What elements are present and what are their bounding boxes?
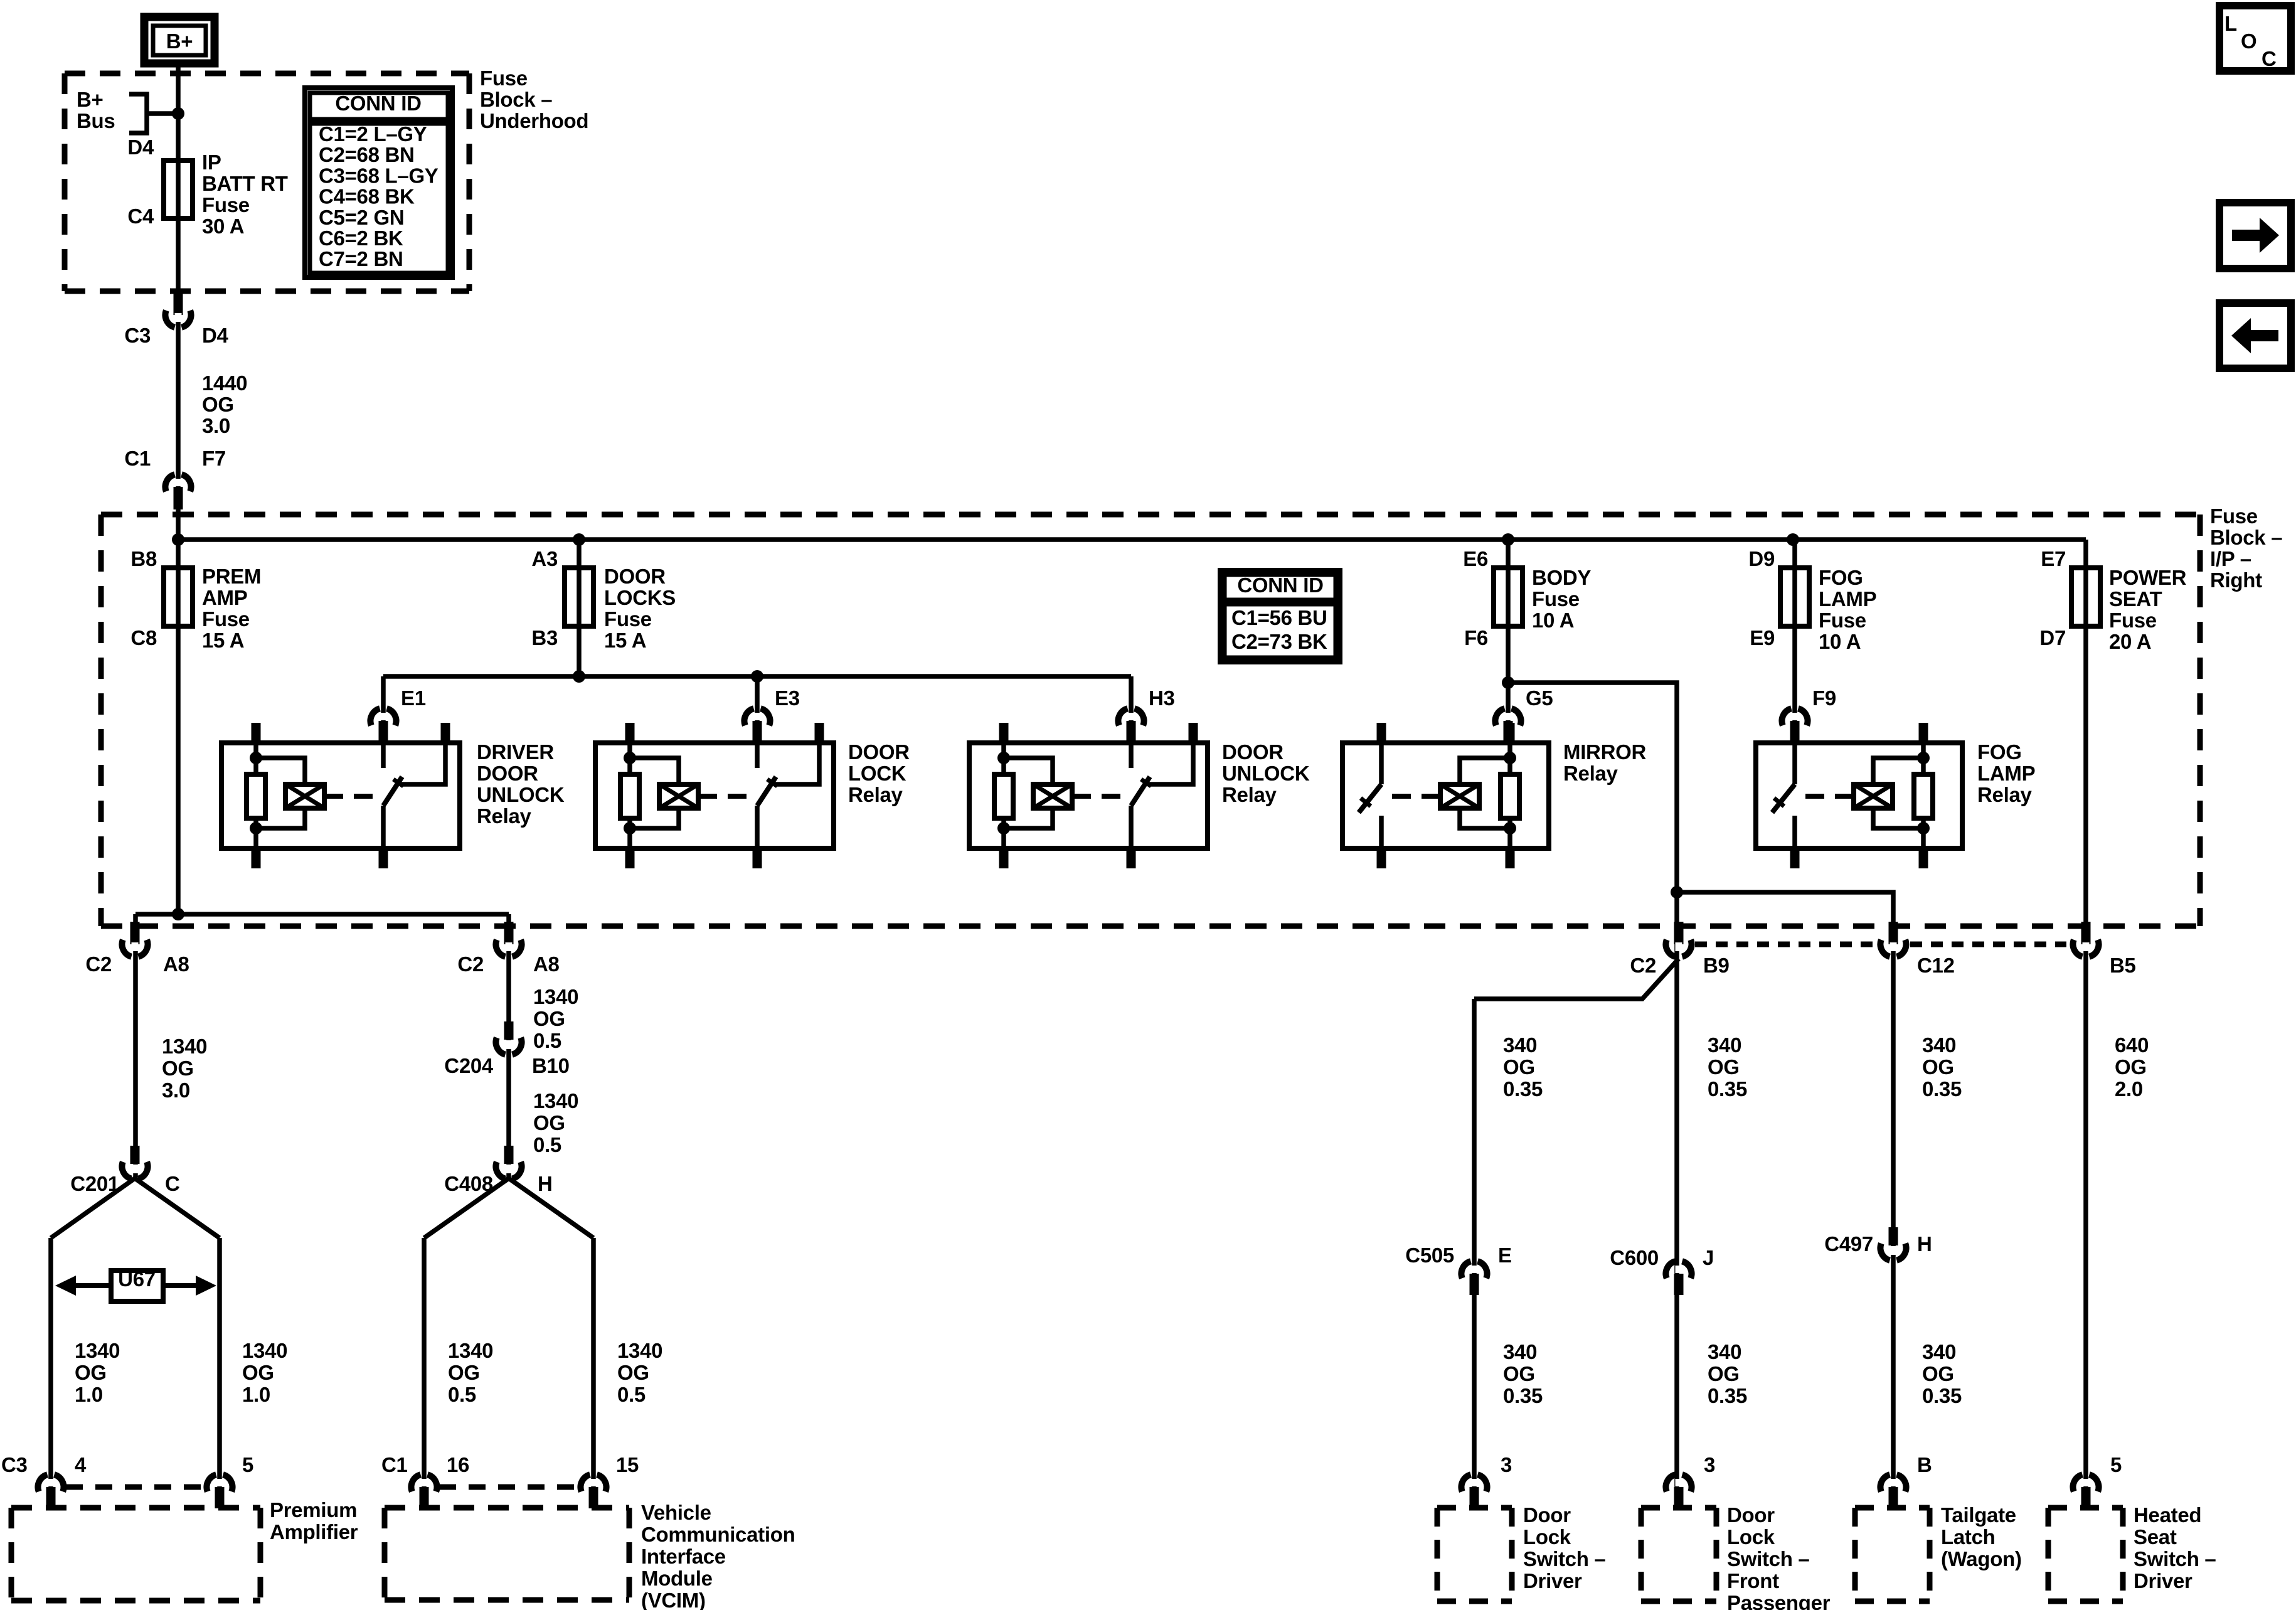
connector pin 3 door lock passenger dome	[1666, 1474, 1675, 1491]
svg-text:Door: Door	[1523, 1503, 1571, 1527]
svg-text:(VCIM): (VCIM)	[641, 1589, 706, 1610]
svg-text:C3: C3	[1, 1453, 28, 1476]
svg-text:C3: C3	[124, 324, 151, 347]
svg-text:0.35: 0.35	[1708, 1384, 1747, 1407]
connector H3 dome	[1118, 708, 1127, 725]
fuse: DOOR LOCKS 15A (A3/B3)	[565, 568, 593, 626]
connector C2/A8 left cup	[132, 942, 139, 951]
relay: DRIVER DOOR UNLOCK	[221, 743, 460, 848]
connector C204 cup	[506, 1040, 513, 1049]
svg-text:Fuse: Fuse	[1532, 587, 1580, 610]
svg-text:Amplifier: Amplifier	[270, 1520, 358, 1543]
svg-text:OG: OG	[617, 1361, 649, 1384]
svg-text:SEAT: SEAT	[2109, 587, 2162, 610]
bus junction dot B8	[172, 533, 184, 546]
svg-text:LAMP: LAMP	[1819, 587, 1876, 610]
connector C2/A8 mid male stub	[504, 922, 514, 944]
svg-text:Fuse: Fuse	[202, 193, 250, 216]
svg-text:C2=68 BN: C2=68 BN	[319, 143, 415, 166]
connector C201 male stub	[130, 1146, 140, 1164]
svg-text:Fuse: Fuse	[2109, 609, 2157, 632]
svg-text:C: C	[165, 1172, 180, 1195]
svg-text:3: 3	[1704, 1453, 1715, 1476]
svg-text:D4: D4	[127, 136, 154, 159]
svg-text:FOG: FOG	[1977, 740, 2022, 764]
svg-text:Fuse: Fuse	[480, 67, 528, 90]
svg-text:F6: F6	[1464, 626, 1488, 649]
connector C505 dome	[1461, 1261, 1470, 1278]
rail junction dot B3	[573, 670, 585, 683]
connector G5 dome	[1495, 708, 1504, 725]
U67 option double arrow left line	[74, 1283, 111, 1288]
svg-text:Seat: Seat	[2134, 1525, 2177, 1549]
wire VCIM right leg	[591, 1238, 596, 1508]
connector C505 male stub	[1470, 1274, 1479, 1295]
svg-text:3.0: 3.0	[202, 414, 230, 437]
svg-text:0.5: 0.5	[533, 1133, 561, 1156]
svg-text:OG: OG	[162, 1057, 194, 1080]
svg-text:UNLOCK: UNLOCK	[1222, 762, 1310, 785]
connector pin 4 premium amp male stub	[46, 1487, 56, 1508]
connector pin 3 door lock driver dome	[1461, 1474, 1470, 1491]
relay: FOG LAMP	[1756, 743, 1962, 848]
CONN ID table - underhood connectors	[305, 88, 452, 277]
svg-text:C12: C12	[1917, 954, 1955, 977]
svg-text:B8: B8	[130, 547, 157, 570]
svg-text:3.0: 3.0	[162, 1079, 190, 1102]
svg-text:LOCKS: LOCKS	[604, 586, 676, 609]
svg-text:Passenger: Passenger	[1727, 1591, 1831, 1610]
connector C497 cup	[1890, 1246, 1897, 1255]
connector pin 4 premium amp dome	[38, 1474, 47, 1491]
bus wire from B8 feed across fuse block to power seat fuse	[178, 537, 2086, 542]
arrow box right	[2219, 203, 2291, 269]
fuse block - underhood dashed outline	[65, 71, 469, 77]
component box: Premium Amplifier	[11, 1505, 260, 1511]
svg-text:Interface: Interface	[641, 1545, 726, 1568]
svg-text:OG: OG	[1503, 1055, 1535, 1079]
svg-text:Switch –: Switch –	[2134, 1547, 2216, 1570]
svg-text:1340: 1340	[533, 985, 578, 1008]
wire B9 diagonal to door lock switch driver	[1474, 959, 1679, 999]
svg-text:LOCK: LOCK	[848, 762, 906, 785]
svg-text:340: 340	[1503, 1033, 1537, 1057]
svg-text:C505: C505	[1405, 1244, 1454, 1267]
connector C600 dome	[1666, 1261, 1675, 1278]
svg-text:Switch –: Switch –	[1727, 1547, 1809, 1570]
connector C12 male stub	[1889, 922, 1898, 944]
svg-text:C5=2 GN: C5=2 GN	[319, 206, 404, 229]
svg-text:F7: F7	[202, 447, 226, 470]
svg-text:0.35: 0.35	[1922, 1384, 1962, 1407]
svg-text:DOOR: DOOR	[477, 762, 538, 785]
U67 box	[111, 1271, 163, 1301]
svg-text:1340: 1340	[242, 1339, 287, 1362]
connector C497 male stub	[1889, 1227, 1898, 1245]
connector face dotted line C2 right	[1695, 942, 1877, 947]
junction dot B9 tap	[1671, 886, 1683, 898]
relay: DOOR UNLOCK	[969, 743, 1208, 848]
svg-text:340: 340	[1922, 1340, 1956, 1363]
relay: DOOR LOCK	[595, 743, 834, 848]
svg-text:DOOR: DOOR	[1222, 740, 1284, 764]
svg-text:MIRROR: MIRROR	[1563, 740, 1646, 764]
fuse: BODY 10A (E6/F6)	[1494, 568, 1523, 626]
connector pin 3 door lock driver male stub	[1470, 1487, 1479, 1508]
svg-text:Premium: Premium	[270, 1498, 357, 1522]
svg-text:C2=73 BK: C2=73 BK	[1231, 630, 1327, 653]
bus junction dot D9	[1787, 533, 1799, 546]
svg-text:340: 340	[1922, 1033, 1956, 1057]
svg-text:LAMP: LAMP	[1977, 762, 2035, 785]
svg-text:E: E	[1498, 1244, 1512, 1267]
svg-text:H: H	[1917, 1232, 1932, 1255]
svg-text:15 A: 15 A	[202, 629, 244, 652]
svg-text:G5: G5	[1526, 686, 1553, 710]
component box: Door Lock Switch Front Passenger	[1641, 1505, 1716, 1511]
svg-text:C2: C2	[1630, 954, 1656, 977]
wire drop to E3	[755, 676, 760, 743]
svg-text:0.5: 0.5	[533, 1029, 561, 1052]
svg-text:Vehicle: Vehicle	[641, 1501, 711, 1524]
svg-text:Lock: Lock	[1523, 1525, 1571, 1549]
svg-text:OG: OG	[533, 1111, 565, 1134]
svg-text:0.5: 0.5	[448, 1383, 476, 1406]
connector C3/D4 male stub	[174, 291, 183, 315]
svg-text:FOG: FOG	[1819, 566, 1863, 589]
svg-text:E1: E1	[401, 686, 426, 710]
wire rail from DOOR LOCKS fuse to relay connectors E1 E3 H3	[383, 674, 1131, 679]
wire D9 fuse drop to F9	[1792, 540, 1797, 743]
svg-text:3: 3	[1501, 1453, 1512, 1476]
svg-text:OG: OG	[2115, 1055, 2147, 1079]
svg-text:OG: OG	[242, 1361, 274, 1384]
svg-text:16: 16	[447, 1453, 469, 1476]
svg-text:OG: OG	[1708, 1055, 1740, 1079]
connector C1/F7 dome	[165, 474, 174, 491]
svg-text:OG: OG	[202, 393, 234, 416]
rail junction dot E3	[751, 670, 763, 683]
connector G5 male stub into relay	[1504, 721, 1513, 743]
B+ battery feed symbol	[144, 17, 215, 63]
connector C1/F7 male stub	[174, 487, 183, 509]
svg-text:BATT RT: BATT RT	[202, 172, 288, 195]
svg-text:Heated: Heated	[2134, 1503, 2201, 1527]
svg-text:B9: B9	[1703, 954, 1730, 977]
wire A3 fuse drop	[577, 540, 582, 676]
svg-text:OG: OG	[448, 1361, 480, 1384]
wire E6 fuse drop to G5	[1506, 540, 1511, 743]
connector F9 male stub into relay	[1790, 721, 1800, 743]
svg-text:E9: E9	[1750, 626, 1775, 649]
svg-text:DOOR: DOOR	[604, 565, 666, 588]
svg-text:30 A: 30 A	[202, 215, 244, 238]
svg-text:Fuse: Fuse	[202, 607, 250, 631]
svg-text:D7: D7	[2039, 626, 2066, 649]
svg-text:Fuse: Fuse	[1819, 609, 1866, 632]
wire E7 power seat feed down to B5 and heated seat switch	[2083, 540, 2088, 1508]
wire amp left leg	[48, 1238, 53, 1508]
svg-text:0.35: 0.35	[1922, 1077, 1962, 1101]
svg-text:0.35: 0.35	[1503, 1384, 1543, 1407]
connector pin 5 premium amp male stub	[215, 1487, 225, 1508]
svg-text:D9: D9	[1748, 547, 1775, 570]
connector F9 dome	[1782, 708, 1791, 725]
svg-text:Communication: Communication	[641, 1523, 795, 1546]
svg-text:F9: F9	[1812, 686, 1836, 710]
component box: Heated Seat Switch Driver	[2048, 1505, 2123, 1511]
junction dot C8 output	[172, 908, 184, 920]
connector C408 male stub	[504, 1146, 514, 1164]
svg-text:C4=68 BK: C4=68 BK	[319, 185, 415, 208]
connector C204 male stub	[504, 1021, 514, 1040]
svg-text:2.0: 2.0	[2115, 1077, 2143, 1101]
svg-text:340: 340	[1708, 1340, 1741, 1363]
svg-text:C2: C2	[85, 952, 112, 976]
svg-text:C4: C4	[127, 205, 154, 228]
connector E1 dome	[370, 708, 380, 725]
svg-text:Underhood: Underhood	[480, 109, 588, 132]
svg-text:O: O	[2241, 29, 2256, 53]
svg-text:DRIVER: DRIVER	[477, 740, 554, 764]
connector face dotted line C2 right part2	[1910, 942, 2066, 947]
connector C2/A8 mid cup	[506, 942, 513, 951]
svg-text:POWER: POWER	[2109, 566, 2187, 589]
svg-text:OG: OG	[1922, 1055, 1954, 1079]
U67 arrowhead right	[196, 1276, 216, 1296]
svg-text:Module: Module	[641, 1567, 713, 1590]
connector pin 15 VCIM dome	[580, 1474, 590, 1491]
svg-text:1.0: 1.0	[75, 1383, 103, 1406]
connector face dashed line C3 amplifier	[66, 1485, 205, 1490]
svg-text:C1=56 BU: C1=56 BU	[1231, 606, 1327, 629]
svg-text:IP: IP	[202, 151, 221, 174]
svg-text:Driver: Driver	[1523, 1569, 1582, 1592]
svg-text:A8: A8	[163, 952, 189, 976]
svg-text:15: 15	[616, 1453, 639, 1476]
svg-text:10 A: 10 A	[1819, 630, 1861, 653]
svg-text:BODY: BODY	[1532, 566, 1591, 589]
relay: MIRROR	[1342, 743, 1549, 848]
svg-text:15 A: 15 A	[604, 629, 646, 652]
svg-text:OG: OG	[533, 1007, 565, 1030]
svg-text:20 A: 20 A	[2109, 630, 2151, 653]
fuse: IP BATT RT 30A (D4/C4)	[164, 161, 193, 218]
junction dot F6 output	[1502, 676, 1514, 689]
svg-text:Bus: Bus	[77, 109, 115, 132]
wire drop to H3	[1129, 676, 1134, 743]
fuse block - I/P - right dashed outline	[101, 512, 2200, 518]
svg-text:J: J	[1703, 1246, 1714, 1269]
connector face dashed line C1 VCIM	[439, 1485, 578, 1490]
svg-text:Relay: Relay	[1222, 783, 1277, 806]
svg-text:C204: C204	[444, 1054, 494, 1077]
svg-text:Door: Door	[1727, 1503, 1775, 1527]
connector pin 16 VCIM male stub	[420, 1487, 429, 1508]
svg-text:0.35: 0.35	[1503, 1077, 1543, 1101]
svg-text:(Wagon): (Wagon)	[1941, 1547, 2022, 1570]
svg-text:Relay: Relay	[1977, 783, 2033, 806]
connector H3 male stub into relay	[1127, 721, 1136, 743]
wire door lock driver drop	[1472, 999, 1477, 1508]
svg-text:OG: OG	[1922, 1362, 1954, 1385]
connector C12 cup	[1890, 942, 1897, 951]
svg-text:Fuse: Fuse	[604, 607, 652, 631]
wire V-split to amplifier pins 4 and 5	[51, 1178, 135, 1238]
svg-text:CONN ID: CONN ID	[335, 92, 421, 115]
svg-text:Front: Front	[1727, 1569, 1779, 1592]
svg-text:640: 640	[2115, 1033, 2149, 1057]
connector pin B tailgate dome	[1880, 1474, 1889, 1491]
connector E3 dome	[744, 708, 753, 725]
svg-text:1440: 1440	[202, 371, 247, 395]
svg-text:C7=2 BN: C7=2 BN	[319, 247, 403, 270]
connector pin 15 VCIM male stub	[589, 1487, 598, 1508]
connector C600 male stub	[1674, 1274, 1684, 1295]
connector C3/D4 cup	[175, 313, 182, 322]
svg-text:Right: Right	[2210, 568, 2262, 592]
svg-text:1340: 1340	[448, 1339, 493, 1362]
svg-text:E6: E6	[1463, 547, 1488, 570]
connector E1 male stub into relay	[379, 721, 388, 743]
svg-text:L: L	[2224, 12, 2237, 35]
svg-text:Block –: Block –	[480, 88, 552, 111]
connector pin B tailgate male stub	[1889, 1487, 1898, 1508]
wire right branch down to C204/C408	[506, 914, 511, 1178]
svg-text:C8: C8	[130, 626, 157, 649]
wire from BODY fuse output to B9 and C12 drops	[1508, 683, 1893, 1508]
svg-text:4: 4	[75, 1453, 87, 1476]
fuse: POWER SEAT 20A (E7/D7)	[2071, 568, 2100, 626]
wire amp right leg	[217, 1238, 222, 1508]
svg-text:Block –: Block –	[2210, 526, 2282, 549]
component box: Door Lock Switch Driver	[1437, 1505, 1512, 1511]
U67 arrowhead left	[55, 1276, 76, 1296]
connector C201 cup	[132, 1165, 139, 1173]
connector pin 5 heated seat male stub	[2081, 1487, 2091, 1508]
component box: Tailgate Latch (Wagon)	[1855, 1505, 1930, 1511]
svg-text:C600: C600	[1610, 1246, 1659, 1269]
arrow box left	[2219, 303, 2291, 368]
connector B5 male stub	[2081, 922, 2091, 944]
svg-text:1340: 1340	[617, 1339, 662, 1362]
svg-text:OG: OG	[75, 1361, 107, 1384]
svg-text:I/P –: I/P –	[2210, 547, 2251, 570]
fuse: FOG LAMP 10A (D9/E9)	[1780, 568, 1809, 626]
svg-text:A3: A3	[531, 547, 558, 570]
connector B5 cup	[2083, 942, 2090, 951]
svg-text:B10: B10	[532, 1054, 570, 1077]
svg-text:340: 340	[1503, 1340, 1537, 1363]
bus junction dot E6	[1502, 533, 1514, 546]
wire: B+ feed down through IP BATT RT fuse, C3/D4, C1/F7, bus, PREM AMP fuse to junction	[176, 63, 181, 914]
U67 option double arrow right line	[163, 1283, 198, 1288]
svg-text:340: 340	[1708, 1033, 1741, 1057]
svg-text:C: C	[2261, 47, 2277, 70]
svg-text:Lock: Lock	[1727, 1525, 1775, 1549]
svg-text:C497: C497	[1824, 1232, 1873, 1255]
connector pin 5 premium amp dome	[206, 1474, 216, 1491]
svg-text:AMP: AMP	[202, 586, 247, 609]
connector pin 16 VCIM dome	[411, 1474, 420, 1491]
svg-text:0.35: 0.35	[1708, 1077, 1747, 1101]
svg-text:Tailgate: Tailgate	[1941, 1503, 2016, 1527]
wire PREM AMP fuse output split	[136, 912, 509, 917]
wire left branch down to premium amplifier	[133, 914, 138, 1178]
svg-text:C1=2 L–GY: C1=2 L–GY	[319, 122, 427, 146]
svg-text:C1: C1	[124, 447, 151, 470]
connector C408 cup	[506, 1165, 513, 1173]
svg-text:U67: U67	[118, 1267, 156, 1291]
svg-text:0.5: 0.5	[617, 1383, 646, 1406]
wire B9 drop down to C600 and door lock switch	[1674, 892, 1679, 1508]
svg-text:Driver: Driver	[2134, 1569, 2192, 1592]
svg-text:D4: D4	[202, 324, 229, 347]
svg-text:1340: 1340	[533, 1089, 578, 1112]
fuse: PREM AMP 15A (B8/C8)	[164, 568, 193, 626]
svg-text:OG: OG	[1503, 1362, 1535, 1385]
svg-text:H3: H3	[1149, 686, 1175, 710]
svg-text:5: 5	[242, 1453, 253, 1476]
svg-text:Relay: Relay	[1563, 762, 1618, 785]
svg-text:E7: E7	[2041, 547, 2066, 570]
connector C2/B9 male stub	[1674, 922, 1684, 944]
svg-text:10 A: 10 A	[1532, 609, 1574, 632]
svg-text:PREM: PREM	[202, 565, 261, 588]
connector pin 3 door lock passenger male stub	[1674, 1487, 1684, 1508]
svg-text:B5: B5	[2110, 954, 2136, 977]
svg-text:B3: B3	[531, 626, 558, 649]
svg-text:A8: A8	[533, 952, 560, 976]
connector C2/A8 left male stub	[130, 922, 140, 944]
svg-text:1.0: 1.0	[242, 1383, 270, 1406]
LOC legend box	[2219, 6, 2291, 71]
wire V-split to VCIM pins 16 and 15	[424, 1178, 509, 1238]
svg-text:H: H	[538, 1172, 553, 1195]
svg-text:Fuse: Fuse	[2210, 504, 2258, 528]
svg-text:C3=68 L–GY: C3=68 L–GY	[319, 164, 438, 187]
svg-text:Relay: Relay	[848, 783, 903, 806]
junction dot at B+ bus tap	[172, 107, 184, 120]
svg-text:1340: 1340	[162, 1035, 207, 1058]
connector E3 male stub into relay	[753, 721, 762, 743]
svg-text:Relay: Relay	[477, 804, 532, 828]
B+ Bus terminal bracket	[129, 94, 147, 133]
svg-text:5: 5	[2110, 1453, 2122, 1476]
svg-text:E3: E3	[775, 686, 800, 710]
svg-text:C6=2 BK: C6=2 BK	[319, 227, 403, 250]
bus junction dot A3	[573, 533, 585, 546]
svg-text:C2: C2	[457, 952, 484, 976]
svg-text:Latch: Latch	[1941, 1525, 1996, 1549]
component box: VCIM	[385, 1505, 629, 1511]
svg-text:OG: OG	[1708, 1362, 1740, 1385]
svg-text:B+: B+	[166, 29, 193, 53]
svg-text:Switch –: Switch –	[1523, 1547, 1605, 1570]
connector pin 5 heated seat dome	[2073, 1474, 2082, 1491]
svg-text:C1: C1	[381, 1453, 408, 1476]
svg-text:1340: 1340	[75, 1339, 120, 1362]
wire drop to E1	[381, 676, 386, 743]
CONN ID table - I/P connectors	[1220, 570, 1340, 662]
wire VCIM left leg	[422, 1238, 427, 1508]
svg-text:B+: B+	[77, 88, 104, 111]
svg-text:DOOR: DOOR	[848, 740, 910, 764]
svg-text:B: B	[1917, 1453, 1932, 1476]
svg-text:UNLOCK: UNLOCK	[477, 783, 565, 806]
svg-text:CONN ID: CONN ID	[1237, 573, 1323, 597]
connector C2/B9 cup	[1676, 942, 1682, 951]
